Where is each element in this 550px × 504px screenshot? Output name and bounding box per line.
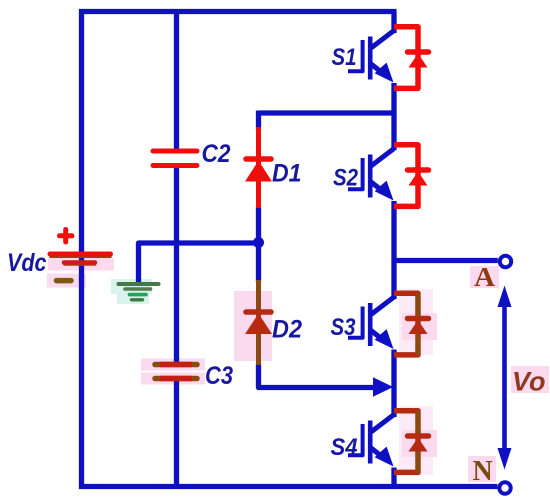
svg-text:C3: C3	[205, 362, 233, 390]
wire capacitor branch upper	[174, 9, 179, 150]
freewheel diode of S3	[394, 293, 429, 355]
IGBT S3	[348, 297, 394, 349]
diode D1	[245, 127, 272, 208]
svg-text:C2: C2	[202, 140, 231, 168]
svg-text:S2: S2	[333, 165, 359, 192]
wire right rail segment 1	[391, 12, 396, 34]
svg-text:S4: S4	[331, 434, 358, 461]
svg-text:D1: D1	[272, 160, 302, 188]
svg-text:D2: D2	[272, 316, 302, 344]
highlight halo label Vo	[511, 366, 549, 393]
wire right rail segment 3	[391, 201, 396, 299]
IGBT S2	[348, 149, 394, 201]
wire right rail segment 4	[391, 350, 396, 418]
wire bottom bus	[79, 484, 497, 489]
terminal N circle	[499, 482, 510, 493]
freewheel diode of S2	[394, 145, 429, 207]
capacitor C2	[153, 151, 197, 166]
wire right rail segment 5	[391, 468, 396, 487]
highlight halo battery minus	[47, 274, 86, 288]
wire D2 lower lead blue	[259, 364, 376, 388]
wire output A	[394, 258, 498, 263]
diode D2	[245, 280, 272, 365]
highlight halo C3	[141, 359, 205, 371]
highlight halo label A	[470, 266, 499, 288]
arrow into S3-S4 midpoint	[373, 377, 393, 396]
wire capacitor branch middle	[174, 167, 179, 363]
IGBT S1	[348, 31, 394, 83]
capacitor C3	[155, 365, 197, 379]
wire D1 upper lead	[256, 111, 261, 130]
highlight halo label N	[468, 456, 496, 482]
svg-text:S3: S3	[331, 314, 357, 341]
highlight halo ground	[111, 279, 152, 294]
terminal A circle	[500, 256, 511, 267]
wire neutral with ground drop	[139, 243, 259, 282]
ground	[119, 284, 159, 300]
node neutral junction dot	[253, 237, 264, 248]
highlight halo S4 diode	[399, 406, 433, 475]
wire D1 lower lead	[256, 207, 261, 282]
freewheel diode of S1	[394, 27, 429, 89]
svg-text:Vo: Vo	[512, 367, 546, 397]
wire left rail	[79, 9, 84, 489]
highlight halo S3 diode	[399, 289, 433, 355]
wire right rail segment 2	[391, 83, 396, 150]
wire clamp top (S1-S2 midpoint to D1)	[259, 110, 395, 115]
arrow Vo measurement	[498, 286, 512, 470]
highlight halo D2	[234, 291, 272, 361]
svg-text:Vdc: Vdc	[7, 249, 47, 277]
wire top bus	[79, 9, 397, 14]
svg-text:A: A	[474, 262, 496, 292]
wire capacitor branch lower	[174, 380, 179, 487]
svg-text:S1: S1	[332, 44, 357, 71]
freewheel diode of S4	[394, 411, 429, 473]
highlight halo battery plate	[48, 258, 114, 271]
battery Vdc	[50, 230, 111, 281]
svg-text:N: N	[473, 456, 493, 487]
IGBT S4	[348, 415, 394, 467]
